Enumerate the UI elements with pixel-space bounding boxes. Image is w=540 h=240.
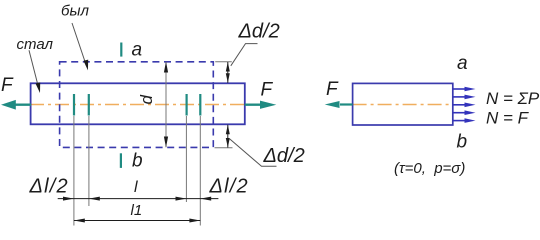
dimension Δd/2 bottom arrows (226, 125, 230, 148)
svg-text:l1: l1 (131, 202, 143, 219)
extension line bottom right (for Δd/2) (215, 147, 233, 149)
l1 arrow left (74, 219, 85, 223)
dimension Δd/2 top arrows (226, 62, 230, 83)
svg-text:стал: стал (17, 36, 54, 53)
arrow left at x=200.3 (200, 197, 211, 201)
arrow left at x=88.9 (89, 197, 100, 201)
centerline (left bar axis) (30, 104, 246, 106)
extension line 2 (x=88.9) (88, 116, 90, 206)
svg-text:a: a (132, 40, 143, 61)
force arrow F (right figure) (325, 101, 353, 108)
internal force arrow 1 (453, 87, 476, 92)
force arrow F left (1, 100, 31, 110)
svg-text:был: был (61, 3, 89, 20)
gauge mark 4 (199, 94, 201, 116)
svg-text:l: l (134, 179, 138, 196)
leader стал (29, 50, 39, 88)
leader arrowhead стал (36, 82, 41, 93)
dimension d arrow up (164, 62, 168, 73)
svg-text:Δd/2: Δd/2 (238, 21, 280, 43)
svg-text:(τ=0, p=σ): (τ=0, p=σ) (394, 160, 465, 177)
svg-text:Δl/2: Δl/2 (209, 176, 249, 198)
extension line 1 (x=73.9) (73, 116, 75, 226)
section tick b (120, 153, 122, 168)
gauge mark 3 (186, 94, 188, 116)
svg-text:Δd/2: Δd/2 (263, 145, 305, 167)
svg-text:N = F: N = F (486, 109, 530, 128)
dimension line l / Δl/2 (58, 198, 219, 200)
arrow right at x=73.9 (63, 197, 74, 201)
arrow right at x=186.4 (176, 197, 187, 201)
svg-text:d: d (137, 95, 156, 105)
leader Δd/2 top (231, 44, 258, 66)
solid bar (deformed, стал) (31, 83, 245, 124)
dimension d line (165, 62, 167, 148)
centerline (right bar axis) (353, 104, 453, 106)
force arrow F right (245, 101, 276, 109)
internal force arrow 4 (453, 110, 476, 115)
extension line top right (for Δd/2) (215, 61, 232, 63)
dashed outline (original bar, был) (60, 62, 214, 148)
svg-text:F: F (326, 79, 339, 100)
dimension d arrow down (164, 137, 168, 148)
svg-text:F: F (1, 75, 14, 96)
svg-text:b: b (132, 150, 143, 171)
svg-text:Δl/2: Δl/2 (29, 176, 69, 198)
internal force arrow 3 (453, 103, 476, 108)
internal force arrow 5 (453, 118, 476, 123)
leader был (72, 23, 86, 66)
svg-text:N = ΣP: N = ΣP (486, 89, 540, 108)
gauge mark 1 (73, 94, 75, 116)
right bar (section diagram) (353, 83, 453, 125)
svg-text:a: a (457, 53, 468, 74)
gauge mark 2 (88, 94, 90, 116)
internal force arrow 2 (453, 95, 476, 100)
leader Δd/2 bottom (230, 139, 277, 166)
extension line 4 (x=200.3) (199, 116, 201, 226)
section tick a (120, 43, 122, 57)
extension line 3 (x=186.4) (185, 116, 187, 202)
l1 arrow right (189, 219, 200, 223)
svg-text:b: b (457, 132, 468, 153)
leader arrowhead был (84, 60, 89, 71)
dimension line l1 (74, 220, 200, 222)
svg-text:F: F (261, 80, 274, 101)
